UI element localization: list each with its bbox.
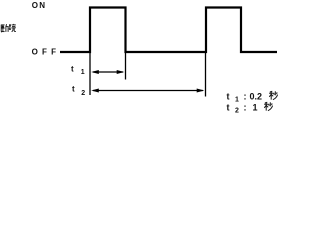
svg-text:t: t <box>227 102 230 112</box>
svg-text:t: t <box>71 65 74 74</box>
svg-text::: : <box>244 92 247 102</box>
svg-text:2: 2 <box>235 107 239 114</box>
svg-text:1: 1 <box>81 69 85 76</box>
svg-text:2: 2 <box>81 90 85 97</box>
svg-text::: : <box>244 102 247 112</box>
svg-text:1: 1 <box>253 102 258 112</box>
svg-text:1: 1 <box>235 97 239 104</box>
svg-text:t: t <box>227 92 230 102</box>
svg-text:OFF: OFF <box>32 47 61 56</box>
svg-text:ON: ON <box>32 1 47 10</box>
svg-text:t: t <box>72 85 75 94</box>
svg-text:0.2: 0.2 <box>250 92 263 102</box>
